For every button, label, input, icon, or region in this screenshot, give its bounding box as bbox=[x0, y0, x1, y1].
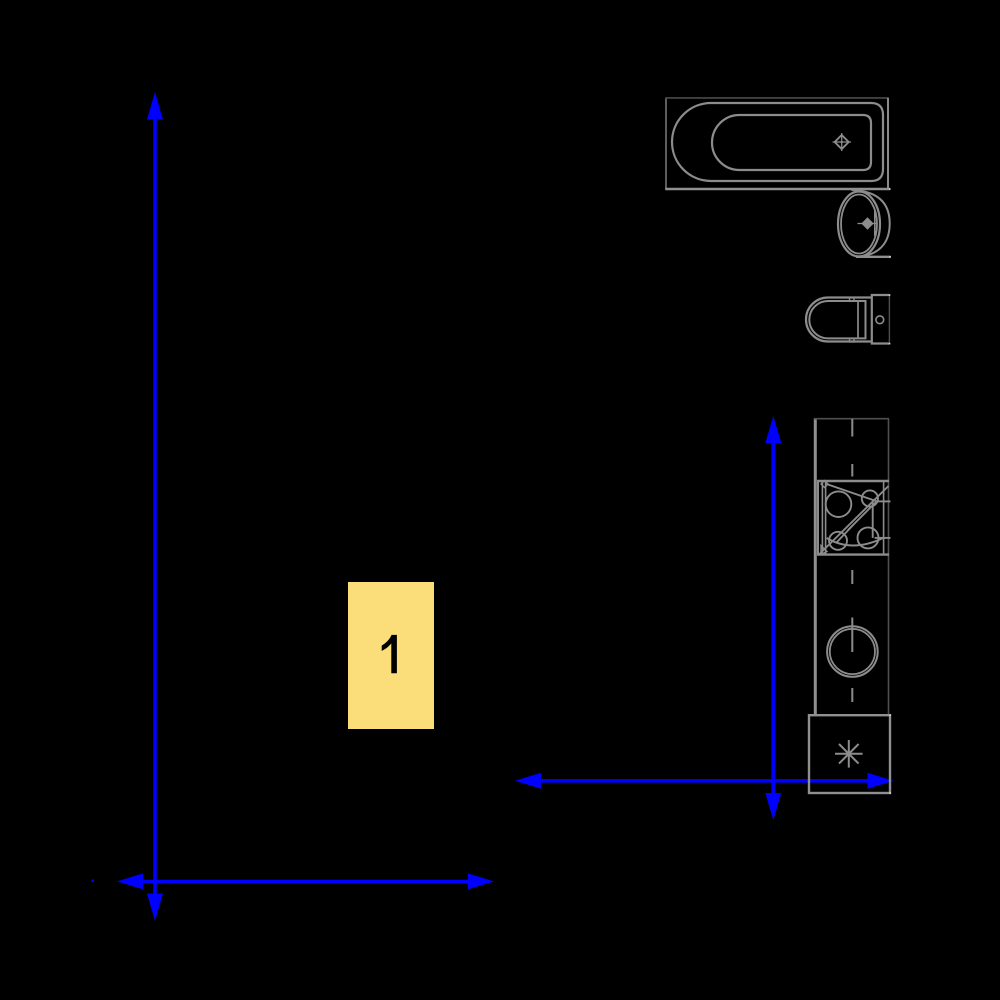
stove right connector bbox=[872, 501, 874, 538]
toilet bowl outer bbox=[806, 298, 872, 342]
bathtub rim bbox=[672, 103, 883, 181]
toilet flush button bbox=[876, 316, 884, 324]
stove diagonal fan bbox=[827, 484, 878, 501]
stove corner mark bottom-left bbox=[821, 546, 827, 555]
stove corner mark top-left bbox=[821, 481, 828, 488]
stove bottom sweep bbox=[827, 538, 883, 546]
stove zigzag bbox=[836, 502, 876, 543]
dimension line horizontal right bbox=[515, 773, 894, 789]
washbasin inner bowl bbox=[841, 195, 877, 254]
burner bottom-left bbox=[829, 532, 847, 550]
stove diagonal long bbox=[820, 486, 889, 554]
dimension line vertical right bbox=[765, 416, 781, 820]
kitchen counter strip bbox=[814, 418, 889, 715]
toilet seat line bbox=[857, 301, 859, 338]
dimension line horizontal bottom bbox=[117, 873, 494, 889]
washbasin tap bbox=[858, 217, 878, 229]
burner top-left bbox=[826, 491, 852, 517]
stove block bbox=[817, 481, 891, 555]
washbasin bottom line bbox=[856, 256, 891, 258]
room label 1 bbox=[348, 582, 434, 729]
dimension line vertical left bbox=[147, 92, 163, 921]
kitchen sink circle bbox=[827, 626, 878, 677]
bathtub basin bbox=[712, 115, 871, 170]
toilet tank bbox=[872, 295, 890, 344]
burner top-right bbox=[862, 490, 878, 506]
washbasin outer bowl bbox=[838, 192, 880, 257]
washbasin counter bbox=[852, 190, 890, 257]
toilet hinges bbox=[850, 298, 855, 302]
burner bottom-right bbox=[858, 527, 879, 548]
bathtub drain bbox=[833, 133, 852, 151]
toilet bowl inner bbox=[809, 301, 865, 338]
corner highlight dots bbox=[889, 188, 891, 794]
washing machine asterisk bbox=[835, 740, 863, 768]
washbasin inner flat edge bbox=[874, 211, 876, 236]
node dot bottom left bbox=[92, 880, 95, 883]
bathtub enclosure bbox=[665, 98, 890, 189]
kitchen centerline dashes bbox=[851, 419, 853, 702]
washing machine box bbox=[809, 715, 890, 793]
